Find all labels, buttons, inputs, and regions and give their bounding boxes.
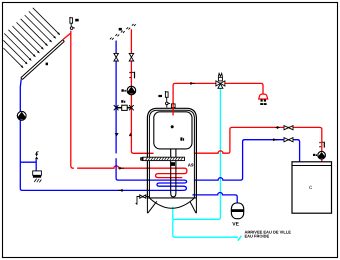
storage tank inner shell bbox=[149, 110, 194, 198]
expansion vessel VE bbox=[231, 203, 244, 219]
tank dished bottom bbox=[149, 198, 194, 208]
gate valve on station supply bbox=[129, 53, 134, 61]
central dip tube bbox=[171, 149, 176, 197]
boiler bbox=[292, 162, 332, 213]
tank leg right bbox=[190, 198, 197, 213]
electric heater element bbox=[141, 157, 185, 161]
label for collector air vent bbox=[75, 19, 79, 22]
label tank air vent bbox=[158, 95, 162, 97]
discharge funnel bbox=[33, 171, 42, 183]
cold water legend arrow tick bbox=[238, 236, 242, 241]
pump P3 boiler loading bbox=[317, 151, 327, 159]
filling bypass with valves and flowmeter bbox=[114, 105, 134, 110]
arrow on boiler flow line bbox=[273, 138, 276, 141]
check valve on station supply bbox=[129, 72, 135, 79]
wire DHW hot from tank top to tap bbox=[173, 83, 263, 115]
svg-text:EAU FROIDE: EAU FROIDE bbox=[245, 234, 270, 239]
sensor pocket on dip tube bbox=[170, 162, 175, 166]
wire safety valve branch bbox=[20, 160, 36, 172]
wire DHW recirculation tank to boiler bbox=[194, 127, 321, 161]
draw-off tap bbox=[259, 94, 268, 105]
wire station return upper segment bbox=[115, 41, 117, 154]
svg-text:A9: A9 bbox=[188, 162, 194, 167]
wire solar station supply to tank bbox=[131, 29, 153, 153]
wire station return + tank coil + collector return bbox=[20, 79, 186, 190]
air vent on tank top bbox=[165, 91, 170, 107]
air vent on collector riser bbox=[69, 17, 74, 29]
pump P1 on collector loop bbox=[16, 111, 27, 120]
check valve at boiler bbox=[319, 142, 325, 148]
sensor dot in inner tank bbox=[171, 125, 174, 128]
3-way thermostatic mixing valve bbox=[216, 73, 225, 88]
svg-text:VE: VE bbox=[232, 222, 239, 228]
shut-off valve on boiler flow bbox=[284, 138, 293, 142]
arrow on solar hot line bbox=[119, 167, 122, 170]
pipe-break marks to collector field bbox=[110, 24, 136, 40]
shut-off valve on recirculation bbox=[284, 126, 293, 130]
label at bypass bbox=[121, 100, 125, 103]
storage tank outer shell bbox=[147, 108, 196, 198]
arrow on collector return line bbox=[120, 189, 123, 192]
flow arrow on station supply bbox=[129, 133, 132, 137]
wire expansion vessel connection bbox=[192, 192, 237, 203]
flow arrow on station return bbox=[115, 133, 119, 136]
wire DHW outlet through square bbox=[172, 104, 174, 115]
wire boiler return from tank bbox=[194, 140, 299, 180]
label pump P2 bbox=[121, 89, 125, 91]
tank bottom weld line bbox=[147, 197, 196, 199]
tank top connection square bbox=[171, 104, 175, 108]
tank drain valve bbox=[136, 195, 150, 205]
safety valve bbox=[35, 152, 38, 160]
tank leg left bbox=[147, 198, 156, 213]
arrow on DHW line bbox=[190, 82, 193, 85]
wire solar hot riser from collector + coil in tank bbox=[63, 31, 187, 178]
sun rays onto collector bbox=[3, 8, 59, 68]
gate valve on station return bbox=[114, 53, 119, 61]
label at pipe break bbox=[119, 28, 122, 31]
inner tank label bbox=[180, 137, 184, 140]
inner DHW tank bbox=[154, 112, 192, 149]
collector label bbox=[46, 63, 48, 66]
wire cold-water feed from tank bottom bbox=[172, 207, 174, 220]
pump P2 solar station bbox=[126, 86, 137, 95]
label pump P3 bbox=[313, 154, 317, 156]
solar collector panel bbox=[21, 40, 65, 80]
wire cold-water cyan main: mixing valve down, left under tank, down, right to legend bbox=[173, 88, 238, 237]
arrow on recirculation line bbox=[275, 126, 278, 129]
